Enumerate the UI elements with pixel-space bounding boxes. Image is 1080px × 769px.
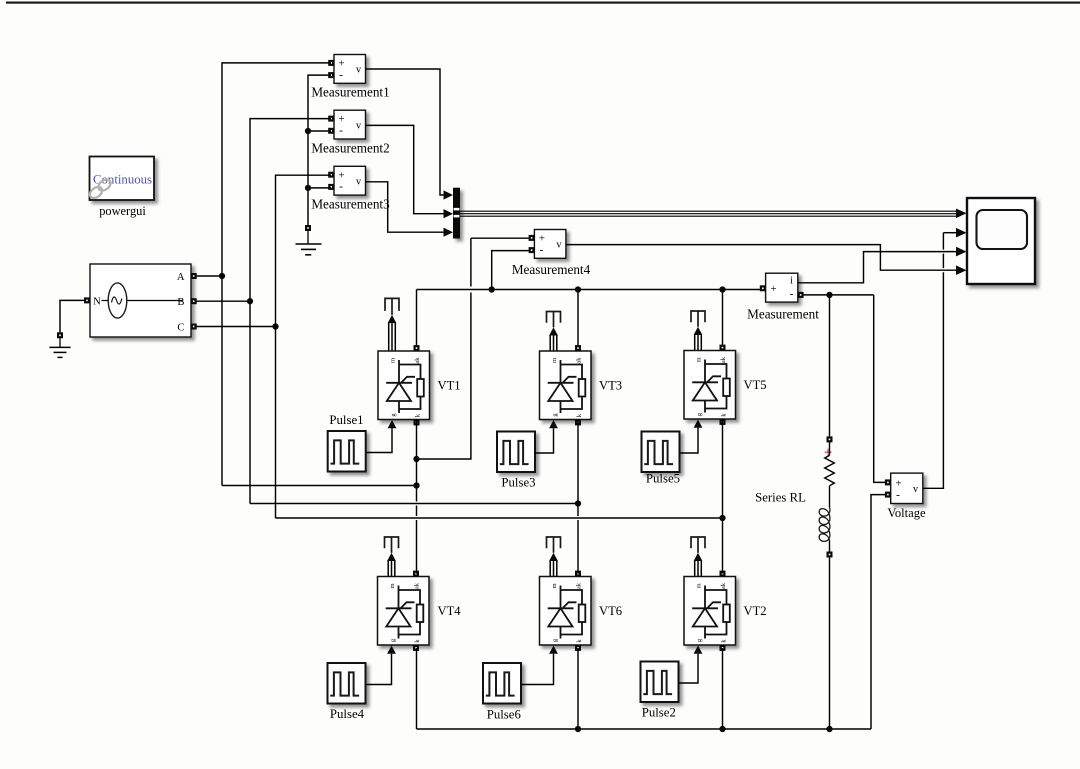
svg-text:ak: ak <box>576 357 583 364</box>
wire VT1 top leg <box>416 290 418 346</box>
resistor of Series RL <box>829 442 831 455</box>
node phase C <box>272 323 278 329</box>
svg-text:Pulse5: Pulse5 <box>646 472 680 486</box>
node VT1 cathode junction <box>413 456 419 462</box>
wire VT3-VT6 leg <box>577 420 579 504</box>
wire Measurement3 v to mux <box>366 182 444 232</box>
voltage measurement block Voltage <box>891 473 923 503</box>
svg-text:Measurement3: Measurement3 <box>311 197 390 212</box>
measurement ground port <box>305 225 311 231</box>
svg-text:powergui: powergui <box>99 204 146 218</box>
thyristor VT1 <box>378 351 430 420</box>
svg-text:+: + <box>338 113 344 125</box>
wire inductor to bottom port <box>829 541 831 552</box>
svg-text:-: - <box>339 69 343 81</box>
node phase B at VT3 leg <box>575 500 581 506</box>
top border line <box>6 2 1080 4</box>
inductor of Series RL <box>819 507 830 541</box>
wire phase A lower run to VT1 leg <box>222 485 417 487</box>
wire Measurement- to load <box>803 294 873 296</box>
wire phase C from source <box>197 326 276 328</box>
wire resistor to inductor <box>829 486 831 507</box>
arrow into scope input4 <box>956 265 967 275</box>
svg-text:VT3: VT3 <box>599 378 622 392</box>
svg-text:VT1: VT1 <box>438 378 461 392</box>
wire Pulse5 to VT5 gate <box>680 428 699 453</box>
source ground port <box>57 332 63 338</box>
measurement ground symbol <box>307 231 309 244</box>
svg-text:Pulse3: Pulse3 <box>501 476 535 490</box>
wire Voltage v to scope input2 <box>923 272 944 488</box>
arrow into mux input1 <box>444 190 454 199</box>
svg-text:ak: ak <box>720 582 727 589</box>
wire phase B from source <box>197 300 251 302</box>
node phase A at VT1 leg <box>413 482 419 488</box>
wire riser B to Measurement2+ <box>250 119 331 504</box>
wire Pulse2 to VT2 gate <box>679 654 699 683</box>
Series RL polarity mark <box>825 449 832 456</box>
source ground symbol <box>59 338 61 347</box>
svg-text:VT5: VT5 <box>744 378 767 392</box>
wire Measurement1 v to mux <box>366 69 444 195</box>
source port B <box>191 298 197 304</box>
voltage measurement block Measurement3 <box>334 166 366 195</box>
svg-text:m: m <box>696 583 703 588</box>
Voltage port + <box>885 479 891 485</box>
voltage measurement block Measurement4 <box>534 230 566 259</box>
voltage measurement block Measurement2 <box>334 110 366 139</box>
wire bus to Series RL top <box>829 295 831 437</box>
pulse generator Pulse6 <box>483 663 521 704</box>
node load top <box>826 292 832 298</box>
svg-text:-: - <box>790 289 794 301</box>
svg-text:m: m <box>389 583 396 588</box>
wire VT5 top leg <box>722 290 724 345</box>
svg-text:m: m <box>696 357 703 362</box>
wire riser A to Measurement1+ <box>222 63 331 486</box>
svg-text:Pulse6: Pulse6 <box>487 708 522 722</box>
node VT5 top <box>719 286 725 292</box>
svg-text:ak: ak <box>720 356 727 363</box>
svg-text:N: N <box>93 297 101 308</box>
svg-text:m: m <box>390 358 397 363</box>
wire Pulse6 to VT6 gate <box>521 654 554 685</box>
wire Measurement3- stub <box>308 187 331 189</box>
svg-text:B: B <box>177 297 184 308</box>
wire VT4 bottom leg <box>416 648 418 729</box>
wire VT1 cathode to Measurement4+ <box>417 293 471 460</box>
powergui link icon <box>88 177 113 200</box>
node VT6 bottom <box>575 726 581 732</box>
svg-text:ak: ak <box>414 582 421 589</box>
svg-text:-: - <box>339 181 343 193</box>
svg-text:-: - <box>896 490 900 502</box>
svg-text:+: + <box>770 283 776 295</box>
svg-text:Pulse1: Pulse1 <box>329 413 363 427</box>
wire Measurement2- stub <box>308 130 331 132</box>
wire VT5-VT2 leg <box>722 419 724 518</box>
mux block <box>453 188 460 239</box>
svg-text:Measurement: Measurement <box>747 307 819 322</box>
wire VT1-VT4 leg <box>416 420 418 460</box>
wire Pulse4 to VT4 gate <box>366 654 392 685</box>
svg-text:m: m <box>551 358 558 363</box>
svg-text:A: A <box>177 272 185 283</box>
wire Measurement4- to bus <box>492 251 529 290</box>
svg-text:-: - <box>339 125 343 137</box>
svg-text:Measurement1: Measurement1 <box>311 85 389 100</box>
arrow into scope input3 <box>956 247 967 257</box>
node minus chain M2 <box>305 128 311 134</box>
node phase A <box>219 273 225 279</box>
thyristor VT3 <box>540 351 592 420</box>
svg-text:Continuous: Continuous <box>93 173 152 187</box>
wire Measurement1- to ground chain <box>308 75 331 225</box>
pulse generator Pulse1 <box>328 431 366 472</box>
svg-text:m: m <box>551 583 558 588</box>
node Series RL bottom <box>826 726 832 732</box>
wire top bus to current measurement <box>417 289 761 291</box>
svg-text:+: + <box>338 169 344 181</box>
node VT2 bottom <box>719 726 725 732</box>
arrow into scope input1 <box>956 209 967 219</box>
current measurement port + <box>760 285 766 291</box>
svg-text:+: + <box>338 58 344 70</box>
scope screen <box>977 210 1028 249</box>
voltage measurement block Measurement1 <box>334 55 366 84</box>
wire phase A from source <box>197 275 223 277</box>
svg-text:VT4: VT4 <box>438 604 462 618</box>
pulse generator Pulse4 <box>328 663 366 704</box>
Voltage port - <box>885 492 891 498</box>
wire phase B lower run to VT3 leg <box>250 503 578 505</box>
pulse generator Pulse5 <box>642 432 680 473</box>
wire load top to Voltage+ <box>874 295 885 483</box>
arrow into scope input2 <box>956 228 967 238</box>
powergui block (Continuous) <box>90 157 155 201</box>
svg-text:+: + <box>539 233 545 245</box>
three-phase source block <box>90 264 191 337</box>
svg-text:-: - <box>539 244 543 256</box>
Series RL bottom port <box>827 552 833 558</box>
wire VT3 top leg <box>577 290 579 346</box>
current measurement port - <box>798 292 804 298</box>
node VT3 top <box>575 286 581 292</box>
source port N <box>84 297 90 303</box>
current measurement block Measurement <box>766 273 798 302</box>
svg-text:Measurement4: Measurement4 <box>512 262 591 277</box>
svg-text:VT6: VT6 <box>599 604 622 618</box>
wire source N to ground <box>60 300 84 332</box>
svg-text:i: i <box>790 276 793 287</box>
Series RL top port <box>827 436 833 442</box>
svg-text:VT2: VT2 <box>744 604 767 618</box>
wire Pulse1 to VT1 gate <box>366 428 392 452</box>
source port C <box>191 324 197 330</box>
wire Measurement i to scope input3 <box>798 252 957 283</box>
wire VT2 bottom leg <box>722 648 724 729</box>
wire Measurement2 v to mux <box>366 125 444 213</box>
node minus chain M3 <box>305 185 311 191</box>
source sine ellipse <box>108 283 127 318</box>
thyristor VT2 <box>684 577 736 646</box>
scope block <box>967 198 1035 284</box>
wire Series RL to bottom bus <box>829 557 831 729</box>
arrow into mux input3 <box>444 228 454 237</box>
node Measurement4- on bus <box>489 286 495 292</box>
svg-text:Voltage: Voltage <box>887 506 926 520</box>
node phase C at VT5 leg <box>719 515 725 521</box>
thyristor VT6 <box>540 577 592 646</box>
wire VT6 bottom leg <box>577 648 579 729</box>
node phase B <box>247 298 253 304</box>
wire Voltage- to bottom bus <box>871 495 885 729</box>
svg-text:ak: ak <box>414 357 421 364</box>
svg-text:C: C <box>177 323 184 334</box>
thyristor VT4 <box>378 577 430 646</box>
svg-text:+: + <box>895 478 901 490</box>
wire phase C lower run to VT5 leg <box>276 517 723 519</box>
arrow into mux input2 <box>444 209 454 218</box>
svg-text:Measurement2: Measurement2 <box>311 141 389 156</box>
svg-text:Pulse2: Pulse2 <box>642 706 676 720</box>
svg-text:ak: ak <box>576 582 583 589</box>
thyristor VT5 <box>684 351 736 420</box>
source port A <box>191 273 197 279</box>
svg-text:Pulse4: Pulse4 <box>330 707 365 721</box>
source internal line <box>102 300 109 302</box>
svg-text:Series RL: Series RL <box>755 491 806 505</box>
bus mux to scope (vector line) <box>460 210 957 212</box>
pulse generator Pulse2 <box>641 662 679 703</box>
wire riser C to Measurement3+ <box>276 175 332 518</box>
wire bottom bus <box>417 728 872 730</box>
pulse generator Pulse3 <box>497 432 535 473</box>
wire Measurement4 v to scope input4 <box>566 245 957 271</box>
wire Pulse3 to VT3 gate <box>535 428 554 453</box>
